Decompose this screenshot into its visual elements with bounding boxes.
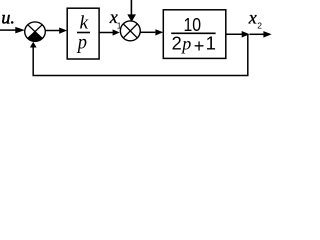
svg-text:u.: u. [1,7,15,27]
node u (input label) [1,7,15,27]
wire node to output [250,33,265,35]
node x1 label [109,7,122,31]
svg-text:2: 2 [257,21,262,31]
arrowhead into W1 [59,28,67,34]
node x2 label [248,8,262,31]
wire S2 to block W2 [140,31,155,33]
svg-text:2: 2 [172,34,182,54]
svg-text:p: p [180,33,191,53]
block W2 (10/(2p+1)) [163,10,226,59]
arrowhead at junction node [242,31,250,38]
arrowhead into S1 [15,27,25,34]
feedback wire from node down, across bottom, and up to S1 [33,34,248,75]
block W1 (k/p) [67,8,99,59]
svg-text:10: 10 [184,14,202,36]
wire input u to summer S1 [0,29,16,31]
svg-text:1: 1 [206,33,216,54]
arrowhead down into S2 [127,14,136,22]
summing junction S1 (circle with X, bottom sector filled) [25,22,46,41]
arrowhead up into S1 bottom [30,42,37,48]
wire W2 to output node [226,33,243,35]
wire S1 to block W1 [45,30,60,32]
output arrowhead [263,31,271,37]
wire disturbance input from top into S2 [130,0,132,15]
summing junction S2 (circle with X) [120,21,140,41]
svg-text:+: + [194,36,205,56]
svg-text:p: p [76,31,87,53]
arrowhead into W2 [155,29,163,35]
svg-text:x: x [248,8,257,28]
wire W1 to summer S2 [99,32,113,34]
arrowhead into S2 [113,29,120,35]
